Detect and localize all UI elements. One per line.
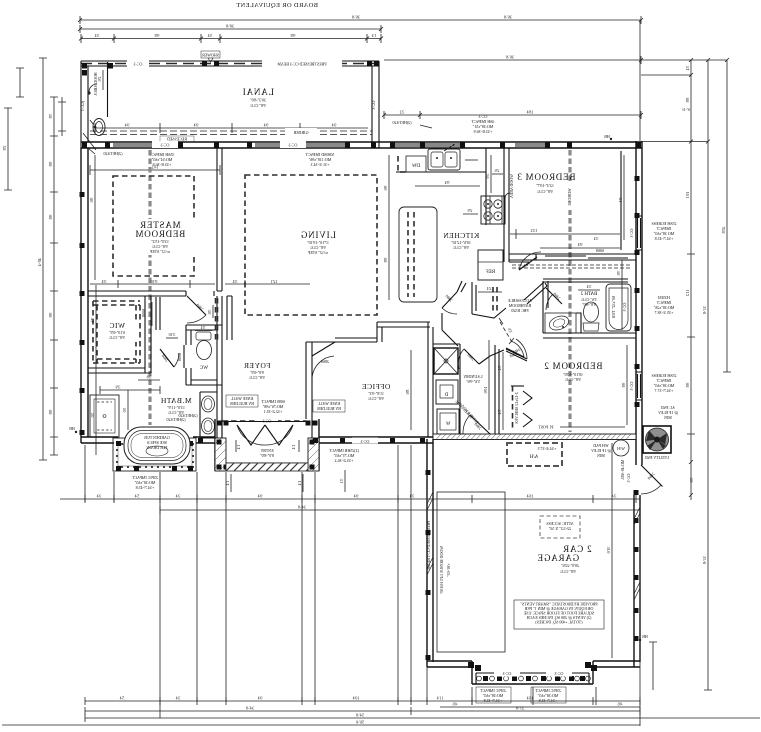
- girder dashed: [90, 128, 372, 142]
- svg-text:W/H: W/H: [617, 446, 625, 451]
- svg-text:11'2: 11'2: [685, 290, 690, 297]
- diagonal dim 5'6: [500, 322, 512, 342]
- svg-text:CC-3: CC-3: [161, 143, 170, 148]
- title BOARD OR EQUIVALENT: [236, 2, 318, 9]
- svg-text:M.BATH: M.BATH: [160, 396, 191, 405]
- window label 25sh egress right top: [651, 221, 676, 241]
- dim right of garage: [649, 642, 657, 690]
- smart vents note box: [514, 600, 604, 629]
- svg-text:9'4: 9'4: [332, 123, 337, 128]
- svg-text:9'8" CLG: 9'8" CLG: [565, 377, 580, 382]
- svg-text:WOOD BONUS 14'0 16A36": WOOD BONUS 14'0 16A36": [439, 546, 444, 595]
- svg-text:3'8: 3'8: [48, 114, 53, 119]
- bedroom2 door: [506, 339, 527, 361]
- door 2468 lower-left: [464, 349, 479, 364]
- porch column dims: [225, 470, 345, 492]
- svg-text:FOYER: FOYER: [243, 361, 270, 370]
- room LANAI label: [242, 87, 274, 108]
- svg-text:11'4: 11'4: [437, 696, 444, 701]
- left outer wall: [80, 148, 89, 443]
- svg-text:CC-3: CC-3: [622, 303, 627, 312]
- label 25pic impact bottom-left: [131, 475, 158, 490]
- mbath vanity double sinks: [200, 392, 217, 438]
- bottom sheet line: [2, 720, 640, 726]
- room 2 CAR GARAGE label: [537, 544, 592, 574]
- extension lines to bottom: [85, 445, 640, 726]
- room KITCHEN label: [443, 231, 479, 250]
- svg-text:9'8: 9'8: [48, 313, 53, 318]
- svg-text:+34.7/-45.8: +34.7/-45.8: [539, 698, 558, 703]
- svg-text:36'-8: 36'-8: [506, 55, 514, 60]
- svg-text:9'8: 9'8: [155, 33, 160, 38]
- range: [481, 196, 505, 224]
- svg-text:6'-1f: 6'-1f: [682, 107, 690, 112]
- svg-text:2868: 2868: [321, 359, 329, 364]
- svg-text:12'1: 12'1: [271, 279, 278, 284]
- svg-text:9'8: 9'8: [48, 215, 53, 220]
- left dim column outer: [2, 58, 66, 460]
- ac pad label: [658, 405, 678, 420]
- svg-text:+34.7/-45.8: +34.7/-45.8: [136, 485, 155, 490]
- wall between tub and entry: [193, 437, 215, 443]
- house bottom wall office segment: [313, 437, 433, 444]
- attic access dashed: [540, 516, 580, 538]
- mbath pocket doors: [141, 297, 179, 367]
- svg-text:PRESTRESSED CC-3 BEAM: PRESTRESSED CC-3 BEAM: [426, 520, 431, 570]
- svg-text:WOOD AREA: WOOD AREA: [509, 174, 514, 198]
- lanai right wall: [371, 61, 379, 148]
- svg-text:54'-8: 54'-8: [356, 713, 364, 718]
- svg-text:5'0: 5'0: [122, 408, 127, 413]
- svg-text:WDROBE: WDROBE: [567, 188, 572, 206]
- svg-text:P1 POST: P1 POST: [538, 425, 554, 430]
- bottom area dim row 2: [160, 505, 640, 515]
- svg-text:9'8: 9'8: [48, 410, 53, 415]
- svg-text:9'4: 9'4: [258, 696, 263, 701]
- room FOYER label: [243, 361, 270, 380]
- svg-text:31'-8: 31'-8: [702, 306, 707, 314]
- svg-text:5'6"-9'6": 5'6"-9'6": [466, 379, 480, 384]
- mbath inner dims: [122, 375, 160, 431]
- bedroom3 right interior line: [620, 151, 622, 250]
- knee wall dashed: [222, 395, 345, 424]
- svg-text:BY BUILDER: BY BUILDER: [317, 406, 341, 411]
- svg-text:(TOTAL +400 SQ. INCHES): (TOTAL +400 SQ. INCHES): [535, 620, 583, 625]
- svg-text:3'4: 3'4: [410, 494, 415, 499]
- hood area: [80, 62, 108, 117]
- kitchen DW: [398, 156, 426, 172]
- lanai mid dimension line: [95, 123, 368, 134]
- svg-text:34'-8: 34'-8: [246, 706, 254, 711]
- office door: [312, 342, 335, 378]
- room MASTER BEDROOM label: [125, 219, 195, 255]
- hall star walls: [442, 252, 547, 369]
- svg-text:5'4: 5'4: [135, 494, 140, 499]
- wardrobe dashed shelf bed3: [512, 265, 632, 268]
- right top dimension line: [384, 20, 729, 144]
- bedroom3 dims: [510, 155, 624, 248]
- svg-text:HB: HB: [642, 634, 648, 639]
- master bottom dim: [90, 279, 310, 288]
- svg-text:2-12x12 SHELVES: 2-12x12 SHELVES: [514, 392, 519, 424]
- svg-text:FBC R320: FBC R320: [511, 308, 528, 313]
- svg-text:5'9: 5'9: [485, 174, 490, 179]
- svg-text:3'4: 3'4: [102, 279, 107, 284]
- svg-text:1'4: 1'4: [372, 33, 377, 38]
- garage right wall: [634, 490, 648, 667]
- kitchen dim lines: [383, 155, 491, 300]
- svg-text:2'6: 2'6: [97, 77, 102, 82]
- svg-text:14'2: 14'2: [152, 165, 159, 170]
- svg-text:+34.4/-37.5: +34.4/-37.5: [538, 446, 557, 451]
- svg-text:w/12" STEP: w/12" STEP: [307, 250, 328, 255]
- svg-text:60"x32" TUB: 60"x32" TUB: [611, 296, 616, 319]
- room WIC: [88, 296, 151, 373]
- house top wall: [81, 134, 662, 148]
- svg-text:MIN: MIN: [664, 415, 672, 420]
- room WC (master toilet): [177, 325, 222, 385]
- window label master: [88, 148, 174, 167]
- svg-text:BEDROOM 2: BEDROOM 2: [544, 361, 603, 371]
- master tray ceiling dashed: [113, 176, 194, 276]
- svg-text:(CC-3: (CC-3: [80, 101, 85, 111]
- svg-text:3'4: 3'4: [594, 236, 599, 241]
- WH pad: [591, 440, 629, 458]
- second dimension line lanai width: [78, 24, 383, 34]
- mbath shower: [90, 395, 119, 437]
- svg-text:3'6: 3'6: [689, 478, 694, 483]
- svg-text:9'8: 9'8: [685, 383, 690, 388]
- svg-text:5'4: 5'4: [120, 696, 125, 701]
- svg-text:w/12" STEP: w/12" STEP: [149, 249, 170, 254]
- mid dimension line right: [382, 107, 690, 119]
- svg-text:21'-8: 21'-8: [516, 706, 524, 711]
- lanai beam prestressed cc-3: [81, 60, 379, 76]
- master/wic divider wall: [88, 291, 222, 296]
- svg-text:3'4: 3'4: [612, 494, 617, 499]
- svg-text:31'-8: 31'-8: [702, 556, 707, 564]
- garden tub: [116, 413, 198, 471]
- mbath right wall: [217, 296, 222, 443]
- svg-text:MO:40-A85.: MO:40-A85.: [620, 460, 625, 481]
- bedroom3 bottom wall + 6068 slider: [509, 248, 636, 260]
- svg-text:3'4: 3'4: [587, 284, 592, 289]
- svg-text:9'6: 9'6: [383, 186, 388, 191]
- foyer left corridor walls: [207, 296, 232, 342]
- svg-text:3'2: 3'2: [400, 110, 405, 115]
- svg-text:3'4: 3'4: [176, 494, 181, 499]
- A/H dashed box: [507, 443, 562, 466]
- label 25hr impact: [328, 448, 359, 463]
- room BEDROOM 2 label: [544, 361, 603, 382]
- svg-text:30'-8: 30'-8: [226, 24, 234, 29]
- room BATH 2: [543, 260, 636, 338]
- svg-text:4'6: 4'6: [618, 702, 623, 707]
- door 2468 lower-right: [506, 348, 524, 357]
- svg-text:2'6: 2'6: [495, 168, 500, 173]
- svg-text:9'8" CLG: 9'8" CLG: [560, 569, 575, 574]
- svg-text:45'8: 45'8: [721, 227, 726, 234]
- garage interior slab rect: [437, 492, 505, 652]
- window label 25sh egress right lower: [651, 373, 676, 393]
- bedroom2 interior dim: [483, 340, 627, 430]
- window label living slider: [305, 152, 334, 167]
- svg-text:3'4: 3'4: [97, 494, 102, 499]
- svg-text:+33.2/-36.2: +33.2/-36.2: [335, 458, 354, 463]
- bedroom2 closet bifold: [511, 386, 532, 429]
- svg-text:9'8" CLG: 9'8" CLG: [109, 335, 124, 340]
- svg-text:9'8" CLG: 9'8" CLG: [250, 103, 265, 108]
- entry hatched sill: [226, 448, 308, 471]
- svg-text:16'4: 16'4: [527, 494, 534, 499]
- svg-text:9'8" CLG: 9'8" CLG: [537, 189, 552, 194]
- laundry: [428, 322, 483, 437]
- svg-text:9'8: 9'8: [685, 98, 690, 103]
- svg-text:9'10: 9'10: [151, 279, 158, 284]
- svg-text:3'4: 3'4: [208, 33, 213, 38]
- bottom dim row 54: [85, 713, 760, 723]
- AC condenser: [643, 426, 671, 460]
- label accessible bathroom: [507, 298, 532, 313]
- svg-text:PRESTRESSED CC-3 BEAM: PRESTRESSED CC-3 BEAM: [277, 62, 327, 67]
- svg-text:W: W: [445, 422, 450, 427]
- svg-text:4'6: 4'6: [453, 702, 458, 707]
- svg-text:KITCHEN: KITCHEN: [443, 231, 479, 240]
- svg-text:2'8: 2'8: [2, 146, 7, 151]
- svg-text:9'4: 9'4: [445, 180, 450, 185]
- svg-text:10'4: 10'4: [353, 696, 360, 701]
- svg-text:9'4: 9'4: [578, 242, 583, 247]
- third dimension line segments: [79, 33, 383, 43]
- svg-text:+31.3/-34.3: +31.3/-34.3: [311, 162, 330, 167]
- bottom area dim row 1: [60, 494, 640, 504]
- top dimension line overall: [78, 15, 643, 25]
- svg-text:9'6: 9'6: [89, 198, 94, 203]
- svg-text:3'8: 3'8: [147, 375, 152, 380]
- bearing dashed line master: [148, 150, 151, 425]
- svg-text:1'4: 1'4: [291, 445, 296, 450]
- hall door to garage: [454, 398, 490, 434]
- pantry below REF: [472, 282, 506, 318]
- svg-text:7'1: 7'1: [90, 318, 95, 323]
- door 2480 upper-left: [442, 292, 457, 308]
- master interior dim line: [89, 155, 220, 280]
- bearing dashed line bedroom wing: [568, 150, 571, 432]
- svg-text:CC-3: CC-3: [371, 101, 376, 110]
- kitchen island: [399, 207, 437, 302]
- svg-text:+36'-05": +36'-05": [446, 563, 451, 577]
- svg-text:9'4: 9'4: [194, 123, 199, 128]
- master right wall: [217, 148, 222, 291]
- house bottom wall left of tub: [69, 426, 118, 443]
- svg-text:6008: 6008: [141, 309, 146, 317]
- svg-text:9'8: 9'8: [383, 258, 388, 263]
- svg-text:CC-3: CC-3: [503, 671, 512, 676]
- master door: [186, 291, 214, 323]
- right dim columns: [685, 60, 731, 690]
- svg-text:3'6: 3'6: [616, 271, 621, 276]
- svg-text:3'4: 3'4: [497, 366, 502, 371]
- svg-text:BEDROOM 3: BEDROOM 3: [517, 172, 576, 182]
- room OFFICE label: [362, 350, 411, 430]
- svg-text:WC: WC: [199, 366, 208, 371]
- bedroom2 left wall: [495, 345, 503, 434]
- svg-text:9'8: 9'8: [48, 162, 53, 167]
- svg-text:9'8: 9'8: [621, 383, 626, 388]
- mbath dim line: [90, 285, 160, 455]
- svg-text:56'-0: 56'-0: [356, 720, 364, 725]
- svg-text:+35.3/-38.7: +35.3/-38.7: [655, 310, 674, 315]
- svg-text:CC-3: CC-3: [629, 382, 634, 391]
- svg-text:GIRDER: GIRDER: [293, 130, 308, 135]
- svg-text:1'4: 1'4: [236, 445, 241, 450]
- room LIVING label: [285, 229, 347, 259]
- svg-text:MIN: MIN: [597, 453, 605, 458]
- room BEDROOM 3 label: [517, 172, 576, 210]
- office top walls: [335, 322, 430, 342]
- room M.BATH label: [160, 396, 191, 422]
- svg-text:3'1: 3'1: [339, 479, 344, 484]
- svg-text:REF: REF: [486, 270, 495, 275]
- svg-text:9'8: 9'8: [291, 33, 296, 38]
- svg-text:(2)HETA20: (2)HETA20: [392, 120, 411, 125]
- kitchen/bedroom3 wall: [490, 148, 514, 262]
- svg-text:8'0"-8'0": 8'0"-8'0": [260, 453, 274, 458]
- entry double doors: [227, 422, 307, 453]
- svg-text:LANAI: LANAI: [242, 87, 274, 97]
- svg-text:13'2: 13'2: [531, 228, 538, 233]
- svg-text:A/H: A/H: [529, 455, 538, 460]
- svg-text:OFFICE: OFFICE: [362, 382, 391, 391]
- svg-text:30'3"-8'0": 30'3"-8'0": [250, 98, 266, 103]
- svg-text:RECESSED: RECESSED: [167, 137, 187, 142]
- shower label: [201, 51, 220, 62]
- svg-text:GARAGE: GARAGE: [537, 553, 579, 563]
- garage door labels: [440, 687, 640, 707]
- corner diagonal: [83, 133, 96, 150]
- svg-text:3'4: 3'4: [176, 696, 181, 701]
- svg-text:+34.7/-45.8: +34.7/-45.8: [655, 236, 674, 241]
- bottom dim row 34: [85, 706, 640, 716]
- svg-text:20'0"-22'6": 20'0"-22'6": [561, 563, 579, 568]
- svg-text:(2)HETA20: (2)HETA20: [178, 413, 197, 418]
- svg-text:22-1/2" X 54": 22-1/2" X 54": [548, 526, 571, 531]
- svg-text:12'4"-10'7": 12'4"-10'7": [536, 183, 554, 188]
- svg-text:+32.2/-35.1: +32.2/-35.1: [264, 409, 283, 414]
- hall right walls: [524, 282, 547, 304]
- svg-text:(2)HETA20: (2)HETA20: [103, 151, 122, 156]
- svg-text:CC-3: CC-3: [289, 143, 298, 148]
- utility door: [538, 446, 663, 494]
- svg-text:9'4: 9'4: [264, 123, 269, 128]
- svg-text:+34.7/-45.8: +34.7/-45.8: [484, 698, 503, 703]
- REF: [478, 250, 503, 280]
- svg-text:D: D: [444, 393, 448, 398]
- svg-text:16'1: 16'1: [685, 192, 690, 199]
- window label block top middle: [392, 114, 494, 134]
- svg-text:10'6: 10'6: [483, 387, 488, 394]
- svg-text:2'9: 2'9: [468, 208, 473, 213]
- garage inner dim: [606, 443, 612, 658]
- foyer/office wall: [306, 342, 312, 419]
- svg-text:3'4: 3'4: [233, 279, 238, 284]
- svg-text:1'4: 1'4: [297, 481, 302, 486]
- svg-text:36'-8: 36'-8: [504, 15, 512, 20]
- garage top wall hatched: [433, 434, 636, 440]
- svg-text:BY BUILDER: BY BUILDER: [230, 401, 254, 406]
- svg-text:BEDROOM: BEDROOM: [135, 229, 186, 239]
- svg-text:3'4: 3'4: [95, 33, 100, 38]
- window label h35im right mid: [653, 295, 674, 315]
- svg-text:BOARD OR EQUIVALENT: BOARD OR EQUIVALENT: [236, 2, 318, 9]
- hall bottom walls: [479, 350, 504, 364]
- lanai grill sink: [90, 119, 105, 136]
- svg-text:LIVING: LIVING: [300, 230, 336, 240]
- svg-text:36'-8: 36'-8: [352, 15, 360, 20]
- svg-text:+33.8/-36.9: +33.8/-36.9: [474, 129, 493, 134]
- svg-text:WIC: WIC: [109, 321, 125, 330]
- svg-text:CC-3: CC-3: [361, 439, 370, 444]
- svg-text:8'6: 8'6: [405, 390, 410, 395]
- svg-text:3'9: 3'9: [116, 385, 121, 390]
- svg-text:CC-3: CC-3: [626, 474, 631, 483]
- svg-text:6068: 6068: [596, 248, 604, 253]
- svg-text:3'4: 3'4: [497, 410, 502, 415]
- svg-text:CC-3: CC-3: [134, 62, 143, 67]
- garage left wall: [426, 439, 434, 667]
- svg-text:3'6: 3'6: [207, 310, 212, 315]
- svg-text:SHOWER: SHOWER: [202, 53, 219, 58]
- kitchen sink: [428, 144, 460, 170]
- svg-text:UTILITY PAD: UTILITY PAD: [645, 455, 669, 460]
- svg-text:3'10: 3'10: [169, 332, 176, 337]
- svg-text:9'4: 9'4: [258, 494, 263, 499]
- svg-text:9'8" CLG: 9'8" CLG: [453, 245, 468, 250]
- svg-text:40'-4: 40'-4: [37, 258, 42, 266]
- svg-text:3'4: 3'4: [201, 325, 206, 330]
- svg-text:CC-3: CC-3: [629, 229, 634, 238]
- svg-text:DW: DW: [412, 164, 421, 169]
- svg-text:9'4: 9'4: [354, 494, 359, 499]
- kitchen counter: [396, 148, 486, 225]
- svg-text:2'4: 2'4: [487, 286, 492, 291]
- svg-text:+34.7/-37.7: +34.7/-37.7: [655, 388, 674, 393]
- entry porch walls: [215, 419, 319, 471]
- right outer wall: [629, 141, 642, 465]
- svg-text:CC-3: CC-3: [555, 671, 564, 676]
- hall lower-left walls: [442, 313, 458, 346]
- door 2468 upper-right to bath2: [519, 257, 537, 270]
- svg-text:HB: HB: [604, 134, 610, 139]
- tub stipple surround: [113, 438, 196, 471]
- svg-text:9'8" CLG: 9'8" CLG: [249, 375, 264, 380]
- svg-text:31'6: 31'6: [606, 547, 611, 554]
- lanai left wall: [81, 61, 88, 148]
- svg-text:9'4: 9'4: [125, 123, 130, 128]
- bottom dim row labels: [85, 696, 640, 706]
- svg-text:FLR DRAIN: FLR DRAIN: [146, 445, 167, 450]
- living tray ceiling dashed: [245, 175, 377, 315]
- svg-text:9'8" CLG: 9'8" CLG: [368, 396, 383, 401]
- svg-text:3'4: 3'4: [685, 66, 690, 71]
- svg-text:16'4: 16'4: [527, 696, 534, 701]
- svg-text:18'4: 18'4: [527, 110, 534, 115]
- garage bottom wall: [427, 661, 640, 684]
- svg-text:HB: HB: [69, 426, 75, 431]
